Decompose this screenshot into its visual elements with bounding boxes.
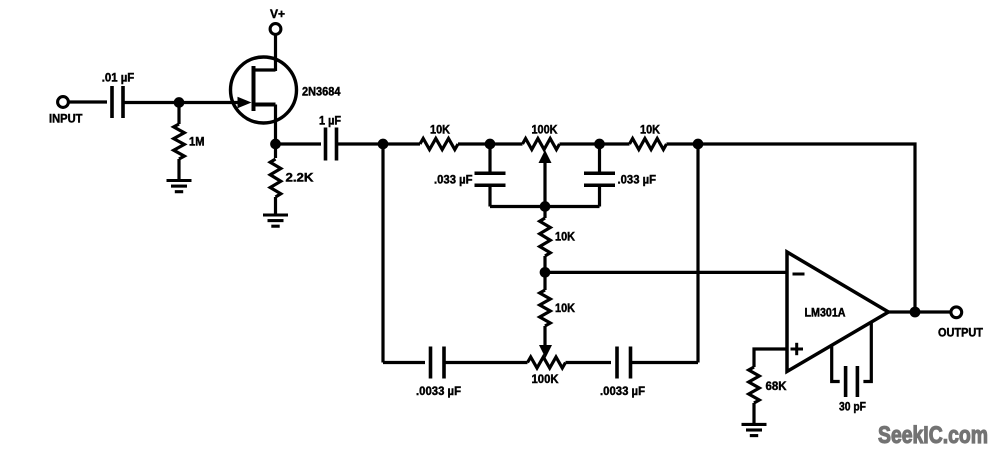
svg-text:2.2K: 2.2K bbox=[286, 171, 314, 185]
node B bbox=[485, 139, 496, 150]
node gate junction bbox=[174, 97, 185, 108]
svg-text:10K: 10K bbox=[555, 301, 575, 315]
svg-text:10K: 10K bbox=[555, 230, 575, 244]
wire op-amp output bbox=[889, 310, 952, 313]
wire node B to R4 bbox=[490, 142, 523, 145]
wire node D down to bottom rail bbox=[696, 144, 699, 363]
wire input to C1 bbox=[68, 100, 107, 103]
svg-text:V+: V+ bbox=[270, 7, 285, 21]
resistor R5 10K bbox=[630, 139, 667, 150]
svg-text:1 µF: 1 µF bbox=[319, 114, 341, 128]
svg-text:.033 µF: .033 µF bbox=[434, 172, 473, 186]
wire R4 to node C bbox=[560, 142, 600, 145]
svg-text:LM301A: LM301A bbox=[805, 305, 846, 319]
wire source to node S bbox=[274, 105, 277, 145]
ground for R8 bbox=[742, 423, 767, 426]
svg-text:1M: 1M bbox=[189, 135, 205, 149]
resistor R2 2.2K bbox=[274, 144, 277, 158]
svg-text:100K: 100K bbox=[532, 123, 558, 137]
node E (mid rail junction) bbox=[540, 201, 551, 212]
ground for R1 bbox=[167, 179, 192, 182]
mid rail wire bbox=[490, 205, 600, 208]
wire C3 to mid rail bbox=[488, 186, 491, 207]
svg-text:.0033 µF: .0033 µF bbox=[416, 384, 461, 398]
svg-text:30 pF: 30 pF bbox=[839, 399, 866, 413]
wire node B down to C3 bbox=[488, 144, 491, 173]
node A bbox=[378, 139, 389, 150]
svg-text:INPUT: INPUT bbox=[49, 112, 83, 126]
resistor R1 1M bbox=[177, 103, 180, 125]
wire C5 to R9 bbox=[444, 361, 528, 364]
potentiometer R9 100K (bottom) bbox=[528, 357, 566, 368]
capacitor C3 .033 uF bbox=[475, 171, 506, 175]
wire feedback from node D to output bbox=[698, 144, 915, 312]
wiper arrow of R4 bbox=[543, 162, 546, 207]
capacitor C1 .01 uF bbox=[110, 86, 114, 118]
capacitor C5 .0033 uF bbox=[429, 347, 433, 379]
wire node C to R5 bbox=[600, 142, 630, 145]
capacitor C7 30 pF bbox=[832, 322, 872, 398]
wire R5 to node D bbox=[667, 142, 699, 145]
resistor R8 68K bbox=[749, 367, 760, 403]
wire node S to C2 bbox=[276, 142, 322, 145]
wire C2 to node A bbox=[337, 142, 384, 145]
wire C6 to bottom rail right bbox=[631, 361, 699, 364]
svg-text:10K: 10K bbox=[640, 123, 660, 137]
wire node A down to bottom rail bbox=[381, 144, 384, 363]
V+ terminal bbox=[270, 24, 281, 35]
svg-text:100K: 100K bbox=[532, 372, 559, 386]
wire bottom rail left bbox=[383, 361, 425, 364]
input terminal bbox=[58, 97, 69, 108]
wire drain to V+ bbox=[274, 34, 277, 71]
node D bbox=[693, 139, 704, 150]
svg-text:SeekIC.com: SeekIC.com bbox=[878, 422, 988, 449]
capacitor C6 .0033 uF bbox=[615, 347, 619, 379]
wire node F to op-amp inverting input bbox=[545, 271, 788, 274]
svg-text:.01 µF: .01 µF bbox=[102, 71, 135, 85]
potentiometer R4 100K (top) bbox=[523, 139, 560, 150]
node G (output junction) bbox=[910, 307, 921, 318]
wire C4 to mid rail bbox=[598, 186, 601, 207]
node F bbox=[540, 267, 551, 278]
resistor R7 10K bbox=[543, 272, 546, 290]
node S (source junction) bbox=[270, 139, 281, 150]
capacitor C2 1 uF bbox=[324, 128, 328, 161]
svg-text:OUTPUT: OUTPUT bbox=[938, 326, 984, 340]
ground for R2 bbox=[263, 213, 288, 216]
svg-text:10K: 10K bbox=[430, 123, 450, 137]
svg-text:.033 µF: .033 µF bbox=[618, 172, 657, 186]
wire node A to R3 bbox=[383, 142, 420, 145]
op-amp U1 LM301A bbox=[787, 252, 889, 372]
transistor Q1 2N3684 bbox=[231, 57, 297, 123]
svg-text:2N3684: 2N3684 bbox=[302, 84, 341, 98]
capacitor C4 .033 uF bbox=[584, 171, 615, 175]
svg-text:.0033 µF: .0033 µF bbox=[600, 384, 645, 398]
resistor R6 10K bbox=[543, 207, 546, 219]
wire R3 to node B bbox=[458, 142, 490, 145]
wire node C down to C4 bbox=[598, 144, 601, 173]
wire R9 to C6 bbox=[566, 361, 612, 364]
wiper arrow of R9 bbox=[539, 345, 552, 358]
node C bbox=[594, 139, 605, 150]
output terminal bbox=[951, 307, 962, 318]
svg-text:68K: 68K bbox=[766, 379, 787, 393]
wire C1 to Q1 gate bbox=[123, 101, 239, 104]
resistor R3 10K bbox=[420, 139, 458, 150]
wire op-amp non-inverting input bbox=[754, 349, 787, 367]
